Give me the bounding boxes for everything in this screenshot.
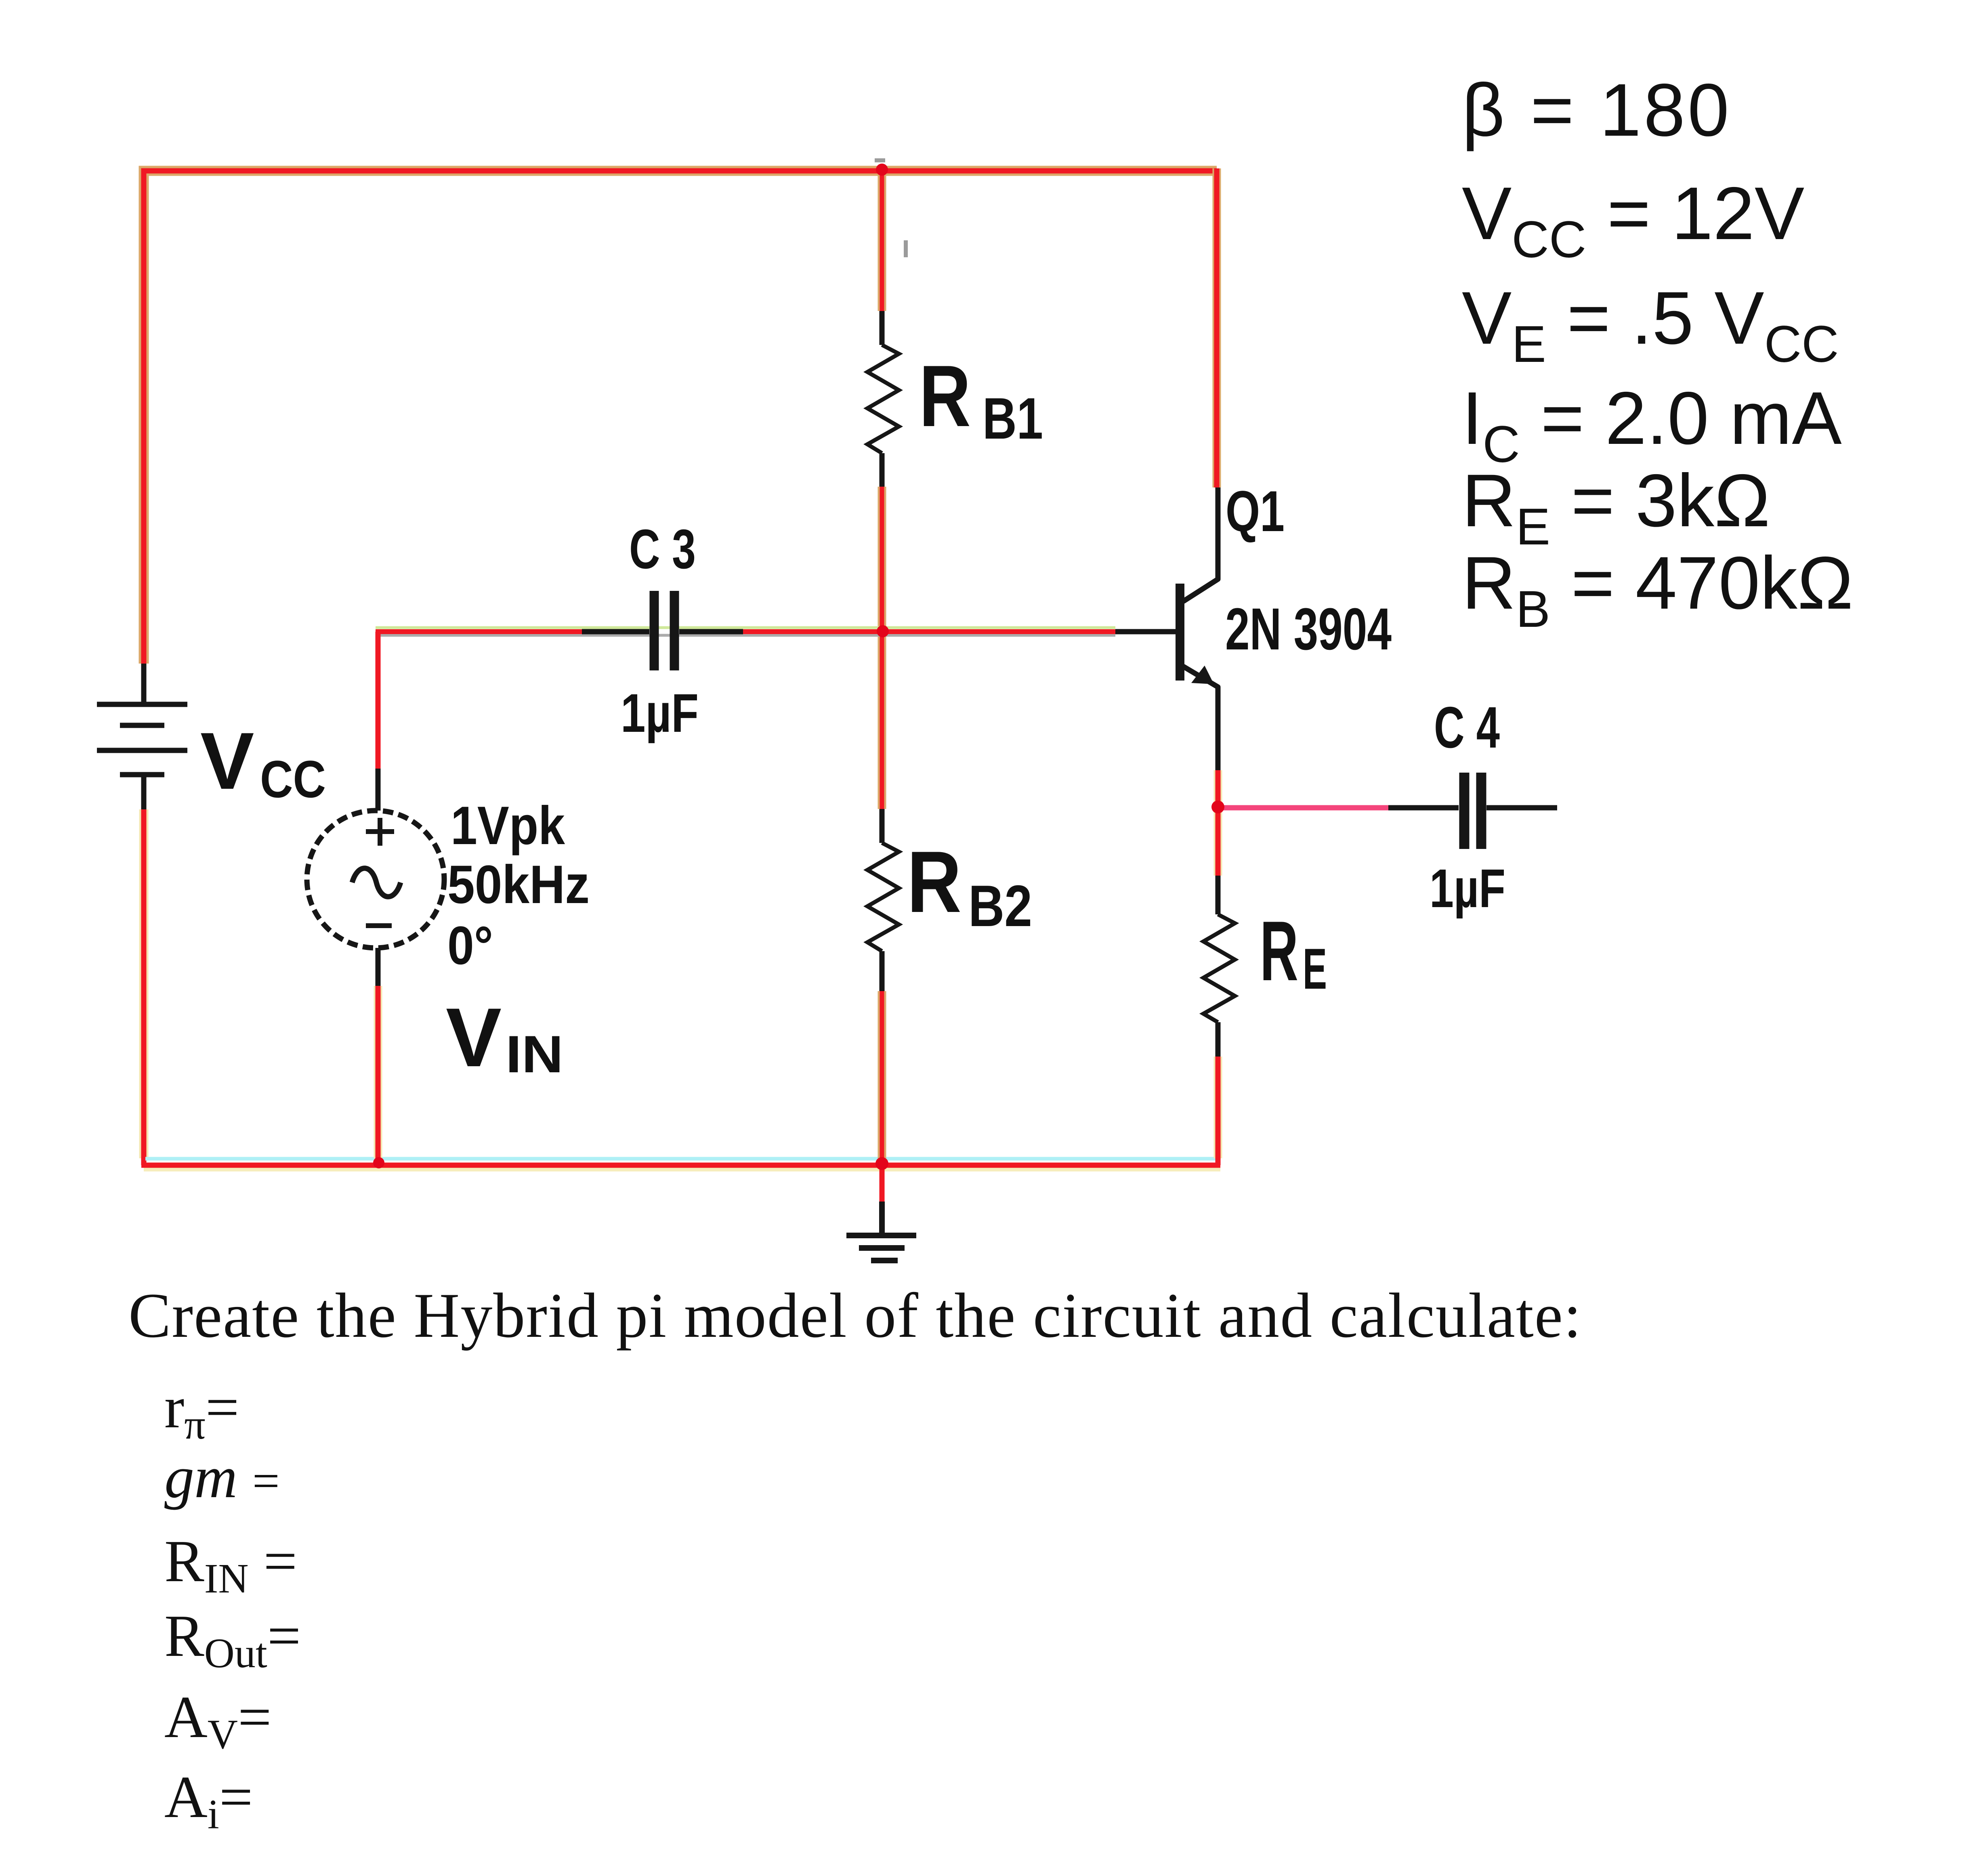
resistor RB2 — [867, 809, 899, 991]
svg-text:IN: IN — [506, 1025, 563, 1084]
resistor RE — [1203, 876, 1235, 1057]
svg-text:R: R — [907, 833, 962, 931]
wire: emitter down to RE — [1214, 770, 1222, 876]
junction: top node — [876, 164, 888, 176]
junction: VIN bottom node — [373, 1157, 384, 1168]
svg-text:R: R — [1260, 903, 1298, 998]
svg-text:Q1: Q1 — [1226, 479, 1285, 544]
wire: VIN top lead up and base wire fringes — [376, 628, 1115, 769]
wire: VCC top rail and left rail to battery + — [144, 171, 1217, 664]
svg-text:Create the Hybrid pi model of: Create the Hybrid pi model of the circui… — [128, 1280, 1582, 1351]
svg-text:B1: B1 — [982, 386, 1043, 451]
wire: battery - down left rail to bottom — [139, 809, 149, 1165]
wire: top rail to RB1 — [878, 171, 886, 311]
artifact: gray tick at top node — [875, 158, 885, 162]
highlight cyan line above ground rail — [145, 1157, 1218, 1161]
transistor Q1 2N3904 — [1115, 487, 1218, 770]
wire: bottom ground rail — [141, 1165, 1220, 1170]
wire: ground stub below rail — [880, 1165, 885, 1202]
wire: RB2 to ground rail — [878, 991, 886, 1165]
svg-text:V: V — [200, 716, 254, 806]
svg-text:C 3: C 3 — [629, 518, 696, 580]
svg-text:V: V — [446, 991, 502, 1084]
svg-text:B2: B2 — [968, 873, 1032, 939]
wire: right collector rail — [1213, 168, 1221, 487]
svg-text:1Vpk: 1Vpk — [451, 796, 565, 856]
capacitor C3 — [582, 591, 743, 670]
resistor RB1 — [867, 311, 899, 487]
svg-text:E: E — [1303, 937, 1327, 1001]
battery V1 VCC — [97, 664, 187, 809]
svg-text:β = 180: β = 180 — [1462, 69, 1732, 152]
label VIN — [446, 991, 563, 1084]
label VIN source values 1Vpk 50kHz 0deg — [447, 796, 590, 976]
svg-text:50kHz: 50kHz — [447, 855, 590, 915]
svg-text:CC: CC — [260, 750, 326, 809]
wire: RB1 to RB2 through base junction — [878, 487, 886, 809]
label RB2 — [907, 833, 1032, 939]
wire: output node to C4 (pink) — [1218, 805, 1388, 811]
svg-text:2N 3904: 2N 3904 — [1225, 596, 1392, 662]
label RB1 — [919, 347, 1043, 451]
svg-text:0°: 0° — [447, 916, 493, 976]
svg-text:1µF: 1µF — [1430, 858, 1505, 919]
label RE — [1260, 903, 1327, 1001]
junction: base node — [877, 625, 889, 637]
wire: RE to bottom rail — [1214, 1057, 1222, 1165]
svg-text:R: R — [919, 347, 971, 445]
svg-text:1µF: 1µF — [621, 683, 699, 744]
wire: VIN bottom to ground rail — [374, 986, 382, 1165]
svg-text:C 4: C 4 — [1434, 695, 1500, 760]
source VIN (sine source) — [307, 769, 444, 986]
junction: emitter output node — [1211, 800, 1224, 813]
capacitor C4 — [1388, 773, 1557, 849]
wire: C3 to transistor base (red) — [743, 629, 1115, 634]
artifact: gray tick above RB1 — [904, 240, 908, 257]
ground symbol — [846, 1202, 916, 1260]
junction: bottom mid node — [875, 1157, 888, 1170]
label VCC — [200, 716, 326, 809]
svg-text:gm =: gm = — [164, 1444, 280, 1510]
